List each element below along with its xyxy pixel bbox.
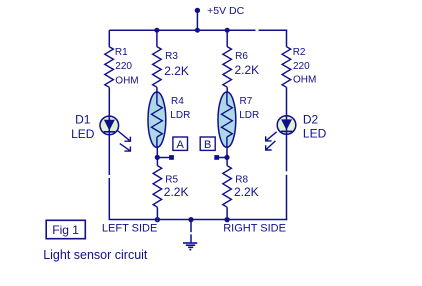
svg-text:R1: R1 [115,47,128,58]
svg-text:R2: R2 [293,47,306,58]
svg-text:R6: R6 [235,51,248,62]
junction dot center bus [195,28,200,33]
svg-text:2.2K: 2.2K [164,185,189,199]
wire D2 to bottom rail lower part [286,175,288,220]
svg-text:LED: LED [303,127,327,141]
D1 light arrow 1 [117,131,130,142]
ground [183,243,197,250]
junction dot ground tap [188,217,193,222]
resistor R3 [153,47,162,88]
test point square B [214,155,219,160]
junction dot left bus [154,28,159,33]
svg-text:2.2K: 2.2K [234,185,259,199]
wire R1 to D1 [108,87,110,117]
wire to ground upper [190,219,192,232]
LED D2 [277,116,296,135]
wire junction to test point B [219,157,227,159]
svg-text:Fig 1: Fig 1 [52,223,79,237]
wire D2 to bottom rail upper part [286,134,288,171]
svg-text:Light sensor circuit: Light sensor circuit [43,248,148,262]
wire top bus left segment [109,29,255,31]
resistor R2 [282,47,291,88]
node A label box [173,137,188,150]
wire top bus right segment [259,29,288,31]
svg-text:R4: R4 [171,96,184,107]
wire bus to R6 [226,30,228,47]
wire bottom rail [109,218,287,220]
svg-text:220: 220 [115,61,132,72]
resistor R8 [223,166,232,208]
svg-text:A: A [177,139,185,151]
wire R7 to junction B [226,147,228,158]
junction dot right bus [225,28,230,33]
resistor R5 [153,166,162,208]
junction donut R5/bottom rail [155,217,160,222]
wire junction to test point A [157,157,169,159]
svg-text:LEFT SIDE: LEFT SIDE [102,222,157,234]
svg-text:2.2K: 2.2K [235,63,260,77]
LDR R7 [218,92,236,147]
D1 light arrow 2 [120,144,131,152]
Fig 1 box [46,220,85,238]
LED D1 [100,116,119,135]
svg-text:B: B [204,139,211,151]
svg-text:+5V DC: +5V DC [207,5,244,17]
wire to ground lower [190,234,192,242]
wire D1 to bottom rail upper part [108,135,110,175]
wire junction B to R8 [226,158,228,166]
wire right rail bus to R2 [286,30,288,47]
wire bus to R3 [156,30,158,47]
svg-text:D1: D1 [75,113,91,127]
wire left rail bus to R1 [108,30,110,47]
junction dot node B [224,155,229,160]
resistor R1 [105,47,114,88]
svg-text:OHM: OHM [293,75,316,86]
wire R5 to bottom rail [156,207,158,219]
wire junction A to R5 [156,158,158,166]
svg-text:R7: R7 [240,96,253,107]
junction dot node A [155,155,160,160]
svg-text:RIGHT SIDE: RIGHT SIDE [223,222,286,234]
svg-text:R5: R5 [165,175,178,186]
wire D1 to bottom rail lower part [108,178,110,220]
wire R6 to R7 [226,87,228,93]
wire R2 to D2 [286,87,288,117]
svg-text:LDR: LDR [239,110,259,121]
wire R4 to junction A [156,147,158,158]
D2 light arrow 1 [266,132,277,141]
svg-text:LED: LED [71,127,95,141]
wire R8 to bottom rail [226,207,228,219]
svg-text:R3: R3 [165,51,178,62]
svg-text:2.2K: 2.2K [164,64,189,78]
svg-text:220: 220 [293,61,310,72]
node +5V DC terminal [195,8,200,13]
LDR R4 [148,92,166,147]
D2 light arrow 2 [266,141,276,150]
svg-text:D2: D2 [303,113,319,127]
wire top feed [196,11,198,31]
wire R3 to R4 [156,87,158,93]
test point square A [169,155,174,160]
node B label box [200,137,215,150]
resistor R6 [223,47,232,88]
svg-text:R8: R8 [235,175,248,186]
svg-text:LDR: LDR [170,110,190,121]
junction dot R8/bottom rail [224,217,229,222]
svg-text:OHM: OHM [115,75,138,86]
